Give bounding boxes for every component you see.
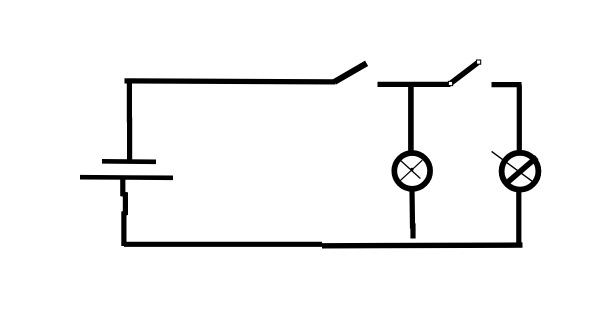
wire battery positive lead (vertical, top-left) — [127, 79, 132, 160]
wire top rail left segment (battery to switch S1) — [125, 81, 336, 82]
lamp L1 body (circle) — [394, 153, 430, 189]
wire battery negative lead (vertical with jogs) — [123, 179, 126, 246]
wire lamp L2 lower lead / right side of bottom rail — [516, 190, 521, 247]
lamp L2 cross thin stroke NW-SE — [492, 151, 537, 184]
switch S2 blade (open, selected) — [450, 63, 478, 84]
switch S2 selection handle (top) — [477, 60, 481, 64]
lamp L1 cross stroke NE-SW — [400, 160, 423, 181]
switch S2 selection handle (bottom) — [448, 81, 452, 85]
wire bottom rail right segment — [322, 242, 523, 248]
lamp L2 body (circle) — [502, 153, 539, 190]
wire top rail middle segment (S1 to S2) — [378, 82, 451, 87]
lamp L2 cross thick stroke SW-NE — [508, 157, 537, 182]
wire right branch down to lamp L2 — [517, 85, 522, 150]
wire bottom rail left segment — [124, 242, 322, 247]
battery B1 positive plate (short top) — [102, 159, 156, 164]
wire top rail right segment (S2 to right corner) — [492, 82, 522, 87]
lamp L1 cross center dot — [410, 168, 413, 171]
battery B1 negative plate (long bottom) — [80, 175, 173, 180]
node T-junction wire to lamp L1 — [408, 84, 414, 152]
switch S1 blade (open) — [334, 63, 366, 82]
wire lamp L1 lower lead — [412, 190, 413, 239]
lamp L1 cross stroke NW-SE — [398, 158, 421, 179]
